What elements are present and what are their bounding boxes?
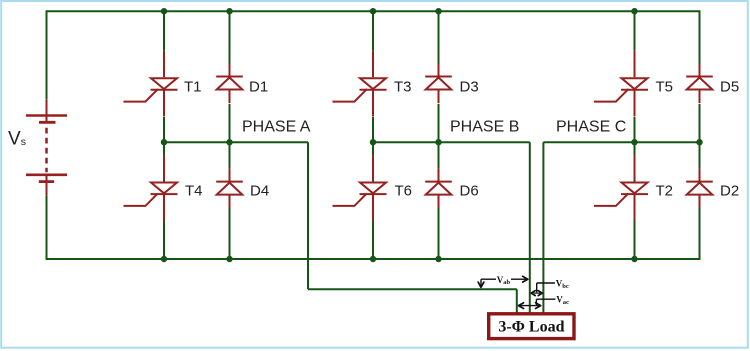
svg-text:T4: T4 [185,183,203,200]
svg-text:PHASE C: PHASE C [556,119,626,136]
svg-text:D1: D1 [249,78,268,95]
svg-text:T3: T3 [394,78,412,95]
svg-text:D6: D6 [460,183,479,200]
svg-text:D5: D5 [720,78,739,95]
svg-text:PHASE A: PHASE A [242,119,311,136]
svg-text:PHASE B: PHASE B [450,119,519,136]
svg-text:D3: D3 [460,78,479,95]
svg-text:T1: T1 [184,78,202,95]
svg-text:D4: D4 [250,183,269,200]
svg-text:T2: T2 [656,183,674,200]
svg-text:T5: T5 [656,78,674,95]
svg-text:3-Φ Load: 3-Φ Load [498,319,564,336]
svg-text:D2: D2 [720,183,739,200]
svg-text:T6: T6 [395,183,413,200]
